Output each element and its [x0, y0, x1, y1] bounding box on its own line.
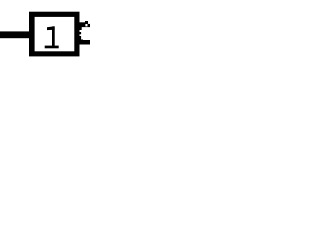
output structure white notch	[85, 24, 87, 26]
label "1" (gate function label)	[45, 26, 59, 48]
wire (input wire, left pin)	[0, 31, 31, 38]
output structure (pixelated output pin marks, cropped at right border)	[80, 21, 91, 45]
gate U1 (IEC buffer box)	[29, 12, 80, 57]
